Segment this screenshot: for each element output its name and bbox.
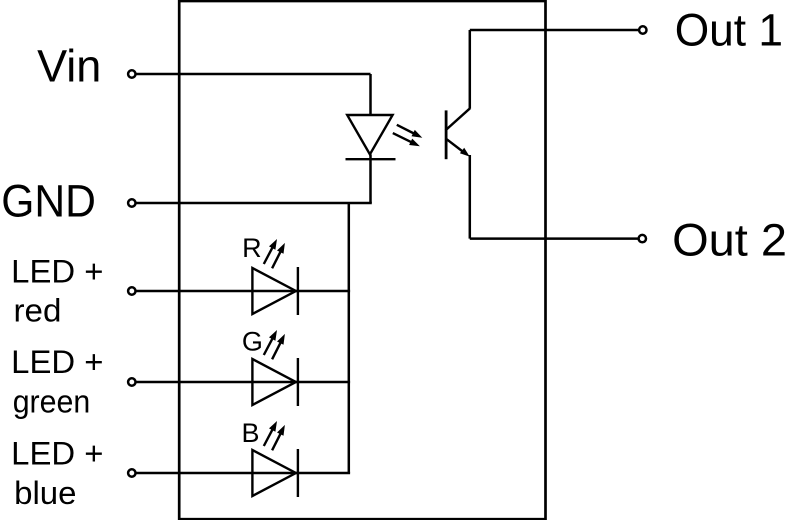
svg-text:Out 1: Out 1: [675, 5, 783, 56]
emitter arrowhead of Q1: [460, 148, 470, 157]
svg-text:R: R: [242, 233, 262, 263]
terminal GND: [128, 199, 135, 206]
svg-text:B: B: [242, 418, 260, 448]
light arrows of D-red: [264, 239, 285, 268]
IC body box U1: [179, 1, 545, 519]
terminal Out 2: [639, 235, 646, 242]
svg-text:LED +: LED +: [11, 435, 103, 471]
terminal LED blue: [128, 469, 135, 476]
LED D-blue symbol: [252, 449, 298, 497]
svg-text:LED +: LED +: [11, 254, 103, 290]
wire GND horizontal: [135, 202, 371, 205]
LED D-green symbol: [252, 358, 298, 406]
wire Vin down to opto LED anode: [369, 74, 372, 116]
wire LED green horizontal: [135, 381, 350, 384]
wire Out 2 horizontal: [470, 237, 639, 240]
light arrows of D1: [393, 125, 423, 147]
terminal LED green: [128, 378, 135, 385]
terminal Vin: [128, 70, 135, 77]
svg-text:red: red: [14, 292, 62, 328]
light arrows of D-blue: [264, 421, 285, 450]
svg-text:blue: blue: [14, 475, 76, 511]
wire Out 1 horizontal: [470, 29, 639, 32]
svg-text:Vin: Vin: [37, 41, 101, 92]
svg-text:GND: GND: [1, 176, 96, 227]
LED D-red symbol: [252, 267, 298, 315]
svg-text:G: G: [242, 326, 263, 356]
terminal LED red: [128, 287, 135, 294]
svg-text:Out 2: Out 2: [672, 215, 787, 266]
optocoupler LED D1: [346, 115, 396, 203]
light arrows of D-green: [264, 330, 285, 359]
phototransistor Q1: [446, 30, 471, 239]
wire LED red horizontal: [135, 290, 350, 293]
wire Vin horizontal: [135, 73, 370, 76]
wire cathode bus vertical: [348, 203, 351, 473]
svg-text:green: green: [13, 383, 91, 419]
terminal Out 1: [639, 26, 646, 33]
svg-text:LED +: LED +: [11, 344, 103, 380]
wire LED blue horizontal: [135, 472, 350, 475]
